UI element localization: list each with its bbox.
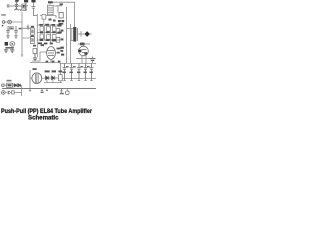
wire ladder taps: [40, 6, 58, 18]
center stage dense block: [37, 25, 62, 44]
resistor box R5: [30, 28, 34, 35]
resistor box left of ladder: [42, 15, 46, 20]
wire B+ right link: [76, 58, 90, 60]
power transformer T2: [30, 70, 45, 89]
ties: [22, 28, 30, 38]
vertical tie 1: [44, 25, 46, 40]
labels row above tube: [33, 44, 44, 46]
labels R5 R6: [31, 26, 34, 28]
heater comp A: [7, 91, 10, 95]
wire speaker line: [78, 33, 92, 35]
resistor box R2: [22, 4, 25, 9]
label cathode lower: [61, 38, 64, 40]
resistor box left of tube: [33, 49, 37, 54]
switch S1 dark square: [5, 42, 8, 46]
fuse box F1: [7, 83, 13, 87]
wire ground bus: [2, 88, 96, 90]
wire input rail: [21, 12, 23, 55]
resistor box RC: [47, 27, 51, 32]
resistor dashes top-left: [7, 5, 10, 8]
tube EL84 upper box: [59, 13, 63, 19]
cap labels: [11, 28, 14, 30]
wire secondary lower: [78, 43, 90, 45]
resistor box PSU: [59, 75, 63, 81]
OT connectors: [67, 29, 74, 41]
filter cap ground ticks: [63, 79, 92, 81]
battery B1: [90, 56, 96, 63]
heater comp B: [12, 91, 15, 94]
winding line: [76, 28, 78, 41]
resistor box RE: [47, 35, 51, 40]
output transformer OT1 core: [73, 27, 76, 42]
resistor box RB: [40, 34, 44, 39]
tick labels: [41, 92, 64, 95]
resistor box RF: [52, 35, 56, 40]
wire row C: [37, 39, 62, 41]
resistor EL84 cathode upper: [56, 29, 60, 34]
resistor box R6: [30, 37, 34, 44]
small cap node: [27, 25, 30, 31]
center stage labels: [38, 24, 61, 45]
wire filter lower bus: [62, 78, 96, 80]
wire plate rail left: [66, 7, 68, 63]
ground sym left A: [4, 49, 8, 53]
wire row A: [37, 24, 62, 26]
mid-left stage components: [22, 28, 34, 44]
resistor box RA: [40, 27, 44, 32]
AC input jack: [2, 84, 5, 87]
pilot lamp: [2, 91, 6, 95]
speaker LS1: [85, 31, 90, 37]
wire input line: [5, 21, 22, 23]
wire top feed: [50, 2, 75, 27]
svg-text:Schematic: Schematic: [28, 115, 59, 121]
heater wire: [5, 92, 21, 94]
potentiometer VR1: [8, 20, 12, 24]
wires rectifier: [45, 63, 61, 78]
R5 R6 inner shade: [31, 30, 34, 34]
ground ticks under bus: [29, 89, 63, 93]
ground below: [33, 54, 37, 61]
knob circle: [10, 42, 15, 47]
transformer T1 ladder: [47, 5, 53, 16]
resistor box RD: [52, 27, 56, 32]
resistor EL84 cathode lower: [56, 37, 60, 42]
capacitor C4: [14, 26, 18, 38]
transformer label: [33, 68, 37, 70]
tube V2 envelope: [32, 47, 55, 63]
wire B+ bus: [30, 62, 96, 65]
filter cap labels: [63, 66, 93, 73]
rectifier diode D4: [52, 76, 55, 80]
AC wires: [4, 84, 21, 86]
diode D2: [18, 84, 21, 87]
labels near tube V2: [57, 48, 61, 50]
secondary component: [80, 43, 85, 46]
capacitor C1 electrolytic: [20, 0, 28, 11]
label above F1: [7, 80, 12, 82]
label under knob: [5, 47, 13, 49]
capacitor C2 electrolytic: [31, 0, 37, 16]
junction blobs on bus: [46, 61, 61, 63]
label 1M: [8, 27, 13, 30]
filter capacitors row: [63, 63, 94, 78]
tiny text NA: [1, 14, 6, 16]
node dot: [2, 25, 4, 27]
rectifier sub-line: [44, 80, 62, 83]
PSU labels: [45, 70, 63, 72]
wire row B: [37, 32, 62, 34]
label T1: [48, 1, 53, 3]
tube V1 small top-left: [10, 2, 22, 11]
tube V4 circle right: [78, 44, 88, 63]
capacitor C3: [6, 26, 10, 38]
wire link: [14, 9, 27, 11]
heater rail: [21, 85, 23, 96]
label above V4: [81, 44, 85, 46]
input jack J1: [2, 21, 5, 24]
primary winding arcs: [71, 29, 73, 41]
rail end tick: [21, 55, 23, 56]
R2 inner mark: [23, 5, 25, 8]
ground sym left B: [10, 49, 14, 53]
rectifier diode D3: [46, 76, 49, 80]
left coupling caps: [6, 26, 18, 38]
vertical tie 2: [50, 25, 52, 44]
wire plate rail right: [70, 24, 72, 63]
diode D1: [14, 84, 17, 87]
lamp comp right: [65, 91, 69, 95]
F1 inner mark: [8, 84, 12, 86]
label cluster EL84: [58, 20, 64, 25]
label near ladder right: [60, 3, 63, 5]
blobs under ladder: [49, 19, 52, 21]
label above V1: [15, 0, 19, 1]
wire screen supply: [56, 5, 62, 7]
wire center rail: [36, 14, 38, 57]
secondary tick: [80, 31, 82, 37]
label cathode upper: [61, 30, 64, 32]
wire below box: [43, 19, 45, 24]
label cluster lower EL84: [60, 47, 64, 56]
